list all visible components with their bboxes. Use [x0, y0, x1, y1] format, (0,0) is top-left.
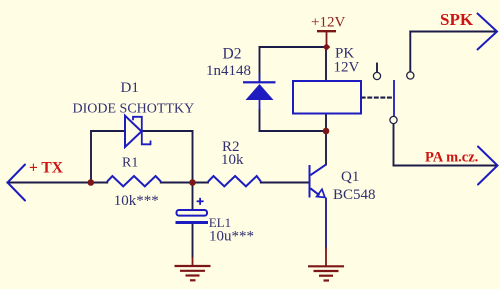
svg-text:BC548: BC548: [333, 187, 376, 203]
svg-text:+12V: +12V: [311, 14, 345, 30]
svg-text:D2: D2: [223, 46, 242, 63]
svg-text:10u***: 10u***: [209, 229, 254, 245]
svg-text:PA m.cz.: PA m.cz.: [425, 150, 478, 166]
svg-text:12V: 12V: [334, 60, 360, 76]
svg-text:SPK: SPK: [440, 10, 474, 29]
svg-text:R1: R1: [122, 155, 138, 170]
svg-text:Q1: Q1: [341, 169, 359, 185]
svg-text:1n4148: 1n4148: [206, 63, 251, 79]
svg-text:DIODE SCHOTTKY: DIODE SCHOTTKY: [73, 101, 195, 116]
svg-text:D1: D1: [121, 80, 139, 96]
svg-text:+ TX: + TX: [29, 159, 64, 176]
svg-text:10k: 10k: [221, 152, 244, 168]
svg-text:10k***: 10k***: [114, 193, 159, 209]
